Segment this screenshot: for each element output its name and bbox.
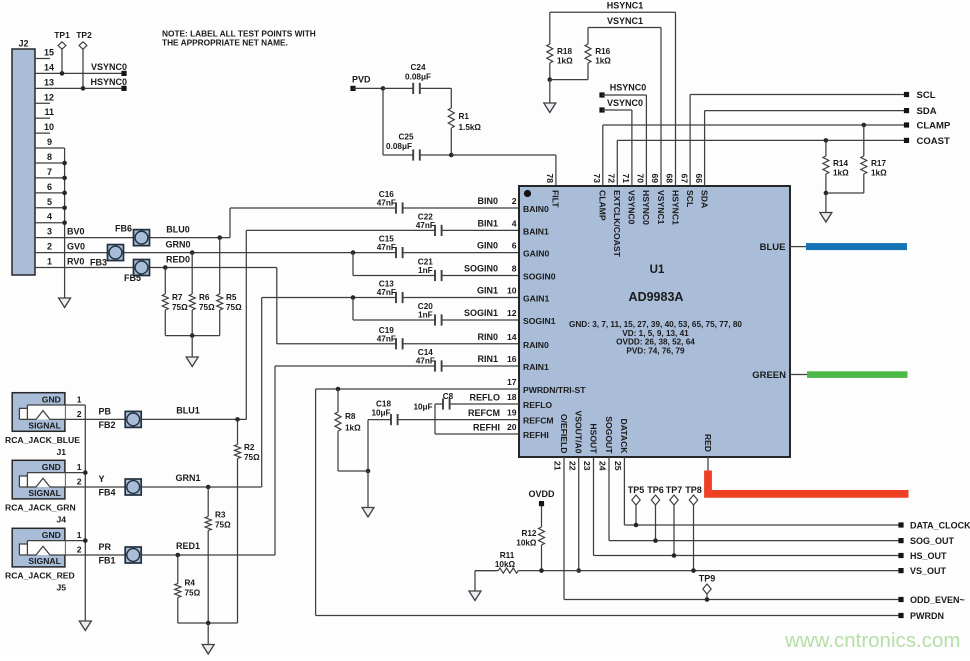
svg-text:71: 71	[621, 173, 631, 183]
svg-text:14: 14	[507, 332, 517, 342]
svg-text:10: 10	[507, 286, 517, 296]
svg-text:2: 2	[47, 242, 52, 252]
svg-text:2: 2	[77, 409, 82, 419]
svg-text:J5: J5	[56, 582, 66, 592]
svg-text:4: 4	[47, 212, 52, 222]
svg-text:REFLO: REFLO	[470, 393, 501, 403]
svg-text:GRN1: GRN1	[175, 473, 200, 483]
svg-text:22: 22	[567, 461, 577, 471]
svg-text:23: 23	[582, 461, 592, 471]
svg-text:7: 7	[47, 167, 52, 177]
svg-text:FB4: FB4	[99, 488, 116, 498]
svg-text:GV0: GV0	[67, 242, 85, 252]
svg-text:12: 12	[507, 308, 517, 318]
svg-text:PWRDN/TRI-ST: PWRDN/TRI-ST	[523, 385, 586, 395]
svg-text:RIN0: RIN0	[477, 332, 498, 342]
svg-text:J4: J4	[56, 514, 66, 524]
svg-text:TP2: TP2	[76, 30, 92, 40]
svg-text:1: 1	[77, 395, 82, 405]
svg-text:2: 2	[512, 196, 517, 206]
svg-text:THE APPROPRIATE NET NAME.: THE APPROPRIATE NET NAME.	[162, 38, 288, 48]
svg-text:R7: R7	[172, 293, 183, 302]
svg-text:66: 66	[694, 173, 704, 183]
svg-text:DATA_CLOCK: DATA_CLOCK	[910, 521, 970, 531]
svg-text:RIN1: RIN1	[477, 354, 498, 364]
svg-text:47nF: 47nF	[377, 243, 396, 252]
svg-text:SDA: SDA	[699, 190, 709, 208]
svg-text:25: 25	[613, 461, 623, 471]
svg-text:CLAMP: CLAMP	[917, 121, 951, 132]
svg-text:VSYNC0: VSYNC0	[627, 190, 637, 225]
svg-text:FB6: FB6	[115, 224, 132, 234]
svg-text:75Ω: 75Ω	[226, 303, 242, 312]
svg-text:HSYNC0: HSYNC0	[90, 77, 127, 87]
svg-text:47nF: 47nF	[416, 221, 435, 230]
svg-text:5: 5	[47, 197, 52, 207]
svg-text:REFCM: REFCM	[523, 416, 554, 426]
svg-text:75Ω: 75Ω	[172, 303, 188, 312]
svg-text:1nF: 1nF	[418, 266, 433, 275]
svg-text:R5: R5	[226, 293, 237, 302]
svg-text:6: 6	[47, 182, 52, 192]
svg-text:21: 21	[553, 461, 563, 471]
svg-text:68: 68	[665, 173, 675, 183]
svg-text:14: 14	[44, 62, 54, 72]
svg-text:47nF: 47nF	[377, 288, 396, 297]
svg-text:67: 67	[679, 173, 689, 183]
svg-text:www.cntronics.com: www.cntronics.com	[784, 629, 960, 652]
svg-text:U1: U1	[650, 264, 665, 276]
svg-text:TP7: TP7	[666, 485, 683, 495]
svg-text:GND: 3, 7, 11, 15, 27, 39, 40,: GND: 3, 7, 11, 15, 27, 39, 40, 53, 65, 7…	[569, 320, 742, 329]
svg-text:HSYNC1: HSYNC1	[670, 190, 680, 225]
svg-text:DATACK: DATACK	[619, 418, 629, 454]
svg-text:20: 20	[507, 422, 517, 432]
svg-text:SCL: SCL	[917, 90, 936, 101]
svg-text:GAIN1: GAIN1	[523, 294, 549, 304]
svg-text:18: 18	[507, 392, 517, 402]
svg-text:2: 2	[77, 477, 82, 487]
svg-text:TP9: TP9	[699, 574, 716, 584]
svg-text:VSYNC0: VSYNC0	[91, 62, 127, 72]
svg-text:RED1: RED1	[176, 541, 200, 551]
svg-text:69: 69	[650, 173, 660, 183]
svg-text:BIN0: BIN0	[477, 196, 498, 206]
svg-text:RED: RED	[703, 434, 713, 452]
svg-text:6: 6	[512, 241, 517, 251]
svg-text:R14: R14	[833, 159, 848, 168]
svg-text:FB2: FB2	[99, 420, 116, 430]
svg-text:SDA: SDA	[917, 106, 937, 117]
svg-text:1.5kΩ: 1.5kΩ	[459, 123, 482, 132]
svg-text:BLU0: BLU0	[166, 225, 190, 235]
svg-text:COAST: COAST	[917, 136, 950, 147]
svg-text:PWRDN: PWRDN	[910, 611, 944, 621]
svg-text:RCA_JACK_BLUE: RCA_JACK_BLUE	[5, 435, 80, 445]
svg-text:BAIN0: BAIN0	[523, 204, 549, 214]
svg-text:RCA_JACK_GRN: RCA_JACK_GRN	[5, 502, 76, 512]
svg-text:1kΩ: 1kΩ	[833, 169, 849, 178]
svg-text:PVD: PVD	[352, 75, 371, 85]
svg-text:VS_OUT: VS_OUT	[910, 566, 947, 576]
svg-text:1kΩ: 1kΩ	[871, 169, 887, 178]
svg-text:FB3: FB3	[90, 258, 107, 268]
svg-text:R6: R6	[199, 293, 210, 302]
svg-text:PVD: 74, 76, 79: PVD: 74, 76, 79	[626, 346, 685, 355]
svg-text:75Ω: 75Ω	[244, 453, 260, 462]
svg-text:REFCM: REFCM	[468, 408, 500, 418]
svg-text:4: 4	[512, 218, 517, 228]
svg-text:10kΩ: 10kΩ	[495, 560, 516, 569]
svg-text:SIGNAL: SIGNAL	[28, 556, 60, 566]
svg-text:R11: R11	[500, 551, 515, 560]
svg-text:C25: C25	[398, 133, 413, 142]
svg-text:BV0: BV0	[67, 227, 85, 237]
svg-text:TP6: TP6	[647, 485, 664, 495]
svg-text:SOGOUT: SOGOUT	[604, 416, 614, 454]
svg-text:REFLO: REFLO	[523, 400, 552, 410]
svg-text:GAIN0: GAIN0	[523, 249, 549, 259]
svg-text:SOGIN0: SOGIN0	[523, 272, 556, 282]
svg-text:RCA_JACK_RED: RCA_JACK_RED	[5, 570, 75, 580]
svg-text:1: 1	[77, 462, 82, 472]
svg-text:15: 15	[44, 47, 54, 57]
svg-text:VSYNC1: VSYNC1	[656, 190, 666, 225]
svg-text:C8: C8	[443, 392, 454, 401]
svg-text:CLAMP: CLAMP	[598, 190, 608, 221]
svg-text:GREEN: GREEN	[752, 370, 786, 381]
svg-text:8: 8	[47, 152, 52, 162]
svg-text:10: 10	[44, 122, 54, 132]
svg-text:47nF: 47nF	[416, 357, 435, 366]
svg-text:19: 19	[507, 408, 517, 418]
svg-text:RED0: RED0	[166, 255, 190, 265]
svg-text:TP8: TP8	[685, 485, 702, 495]
svg-text:OVDD: 26, 38, 52, 64: OVDD: 26, 38, 52, 64	[616, 338, 695, 347]
svg-text:TP5: TP5	[628, 485, 645, 495]
svg-text:REFHI: REFHI	[473, 423, 500, 433]
svg-text:78: 78	[545, 173, 555, 183]
svg-text:VSOUT/A0: VSOUT/A0	[574, 411, 584, 454]
svg-text:GND: GND	[42, 530, 61, 540]
svg-text:HSOUT: HSOUT	[588, 423, 598, 454]
svg-text:2: 2	[77, 545, 82, 555]
svg-text:70: 70	[636, 173, 646, 183]
svg-text:1: 1	[77, 530, 82, 540]
svg-text:C24: C24	[410, 63, 425, 72]
svg-text:VSYNC0: VSYNC0	[607, 98, 643, 108]
svg-text:GND: GND	[42, 394, 61, 404]
svg-text:GND: GND	[42, 462, 61, 472]
svg-text:SOGIN0: SOGIN0	[464, 264, 498, 274]
svg-text:SOGIN1: SOGIN1	[464, 308, 498, 318]
svg-text:9: 9	[47, 137, 52, 147]
svg-text:C18: C18	[376, 400, 391, 409]
svg-text:HS_OUT: HS_OUT	[910, 551, 947, 561]
svg-text:10μF: 10μF	[413, 403, 432, 412]
svg-text:BIN1: BIN1	[477, 218, 498, 228]
svg-text:HSYNC0: HSYNC0	[641, 190, 651, 225]
svg-text:1nF: 1nF	[418, 311, 433, 320]
svg-text:0.08μF: 0.08μF	[405, 73, 431, 82]
svg-text:47nF: 47nF	[377, 334, 396, 343]
svg-text:AD9983A: AD9983A	[629, 290, 684, 304]
svg-text:R4: R4	[185, 579, 196, 588]
svg-text:FILT: FILT	[551, 190, 561, 208]
svg-text:GIN0: GIN0	[477, 241, 498, 251]
svg-text:REFHI: REFHI	[523, 430, 549, 440]
svg-text:VSYNC1: VSYNC1	[607, 16, 643, 26]
svg-text:3: 3	[47, 227, 52, 237]
svg-text:1kΩ: 1kΩ	[557, 57, 573, 66]
svg-text:HSYNC1: HSYNC1	[607, 1, 644, 11]
svg-text:RV0: RV0	[67, 257, 84, 267]
svg-text:0.08μF: 0.08μF	[386, 142, 412, 151]
svg-text:1kΩ: 1kΩ	[595, 57, 611, 66]
svg-text:O/EFIELD: O/EFIELD	[559, 414, 569, 454]
svg-text:R8: R8	[345, 412, 356, 421]
svg-text:SIGNAL: SIGNAL	[28, 420, 60, 430]
svg-text:BLUE: BLUE	[760, 242, 786, 253]
svg-text:R17: R17	[871, 159, 886, 168]
svg-text:1kΩ: 1kΩ	[345, 424, 361, 433]
svg-text:TP1: TP1	[54, 30, 70, 40]
svg-text:1: 1	[47, 257, 52, 267]
svg-text:ODD_EVEN~: ODD_EVEN~	[910, 595, 965, 605]
svg-text:J2: J2	[18, 39, 28, 49]
svg-text:R12: R12	[521, 529, 536, 538]
svg-text:GRN0: GRN0	[165, 240, 190, 250]
svg-text:BLU1: BLU1	[176, 405, 200, 415]
svg-text:12: 12	[44, 92, 54, 102]
svg-text:R2: R2	[244, 443, 255, 452]
svg-text:HSYNC0: HSYNC0	[610, 83, 647, 93]
svg-text:16: 16	[507, 354, 517, 364]
svg-text:RAIN0: RAIN0	[523, 340, 549, 350]
svg-text:SOGIN1: SOGIN1	[523, 316, 556, 326]
svg-text:11: 11	[44, 107, 54, 117]
svg-text:R16: R16	[595, 47, 610, 56]
svg-text:EXTCLK/COAST: EXTCLK/COAST	[612, 190, 622, 258]
svg-text:BAIN1: BAIN1	[523, 226, 549, 236]
svg-text:OVDD: OVDD	[528, 489, 555, 499]
svg-text:R18: R18	[557, 47, 572, 56]
svg-text:47nF: 47nF	[377, 199, 396, 208]
svg-text:SIGNAL: SIGNAL	[28, 488, 60, 498]
svg-text:J1: J1	[56, 447, 66, 457]
svg-text:8: 8	[512, 264, 517, 274]
svg-text:Y: Y	[99, 474, 105, 484]
svg-text:SCL: SCL	[685, 190, 695, 207]
svg-text:72: 72	[607, 173, 617, 183]
svg-text:73: 73	[592, 173, 602, 183]
svg-text:PB: PB	[99, 406, 112, 416]
svg-text:R3: R3	[215, 511, 226, 520]
svg-text:75Ω: 75Ω	[199, 303, 215, 312]
svg-text:10kΩ: 10kΩ	[516, 539, 537, 548]
svg-text:RAIN1: RAIN1	[523, 362, 549, 372]
svg-text:17: 17	[507, 377, 517, 387]
svg-text:GIN1: GIN1	[477, 286, 498, 296]
svg-text:FB5: FB5	[124, 273, 141, 283]
svg-text:13: 13	[44, 77, 54, 87]
svg-text:75Ω: 75Ω	[185, 589, 201, 598]
svg-text:PR: PR	[99, 542, 112, 552]
svg-text:FB1: FB1	[99, 556, 116, 566]
svg-text:24: 24	[598, 461, 608, 471]
svg-text:VD: 1, 5, 9, 13, 41: VD: 1, 5, 9, 13, 41	[622, 329, 689, 338]
svg-text:SOG_OUT: SOG_OUT	[910, 536, 955, 546]
svg-text:75Ω: 75Ω	[215, 521, 231, 530]
svg-text:R1: R1	[459, 112, 470, 121]
svg-text:10μF: 10μF	[371, 409, 390, 418]
